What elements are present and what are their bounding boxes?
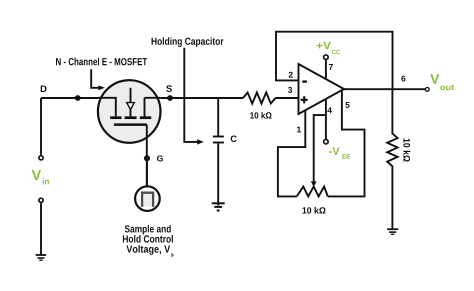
wire pin 1 to pot left	[278, 110, 305, 196]
capacitor C1 plates	[213, 137, 224, 143]
label pin 7	[329, 64, 333, 70]
ground GND3	[387, 229, 398, 234]
wire gate lead down to G	[146, 125, 148, 187]
label pin 1	[297, 127, 301, 133]
node S junction dot	[167, 95, 173, 101]
node G dot	[144, 155, 150, 161]
wire capacitor to ground	[217, 143, 219, 205]
label Sample and Hold Control Voltage Vs	[123, 225, 174, 257]
wire pin 5 to pot right	[328, 90, 365, 196]
pulse waveform symbol	[142, 193, 153, 207]
wire pin 4	[325, 99, 327, 139]
label pin 2	[289, 72, 293, 78]
label N - Channel E - MOSFET	[56, 58, 147, 66]
wire Vin vertical	[40, 98, 42, 155]
terminal Vout open circle	[425, 88, 429, 92]
label Vout	[430, 74, 454, 90]
wire D input horizontal	[41, 97, 100, 99]
annotation arrow to capacitor	[184, 48, 204, 145]
op-amp U1 triangle	[299, 64, 345, 114]
label -VEE	[329, 147, 350, 158]
resistor R3 10k vertical	[387, 89, 397, 229]
label pin 3	[288, 87, 292, 93]
wire S to resistor	[160, 97, 243, 99]
label S	[166, 85, 172, 92]
op-amp minus sign	[302, 80, 307, 82]
label D	[41, 85, 47, 92]
label Holding Capacitor	[152, 37, 224, 47]
label Vin	[32, 170, 49, 184]
label G	[157, 155, 163, 161]
label 10 kOhm R3 vertical	[403, 139, 410, 162]
label C	[231, 135, 237, 142]
ground GND2	[212, 203, 225, 210]
label pin 4	[327, 107, 332, 113]
resistor R1 10k	[243, 93, 276, 104]
wiper wire and arrow	[311, 115, 326, 187]
label +VCC	[317, 42, 340, 55]
potentiometer R2 10k zigzag	[297, 187, 328, 197]
node D junction dot	[75, 95, 81, 101]
source Vs pulse generator circle	[135, 186, 160, 211]
label 10 kOhm R2	[302, 207, 325, 214]
terminal Vin top open circle	[39, 156, 43, 160]
terminal -VEE open circle	[324, 139, 329, 144]
wire gate to pulse source	[146, 161, 148, 186]
wire R1 to op-amp	[276, 97, 299, 99]
label pin 5	[345, 102, 349, 108]
terminal Vin bottom open circle	[39, 198, 43, 202]
wire feedback loop	[276, 32, 393, 89]
label 10 kOhm R1	[250, 112, 271, 119]
annotation arrow to MOSFET	[91, 69, 105, 90]
wire pin 7	[325, 59, 327, 79]
wire output	[344, 88, 425, 90]
transistor Q1 N-channel E-MOSFET	[98, 80, 161, 143]
label pin 6	[401, 76, 405, 82]
op-amp plus sign	[301, 96, 308, 103]
ground GND1	[36, 255, 47, 260]
terminal +VCC open circle	[324, 55, 329, 60]
capacitor C1 lead top	[217, 98, 219, 136]
wire Vin bottom to ground	[40, 203, 42, 255]
